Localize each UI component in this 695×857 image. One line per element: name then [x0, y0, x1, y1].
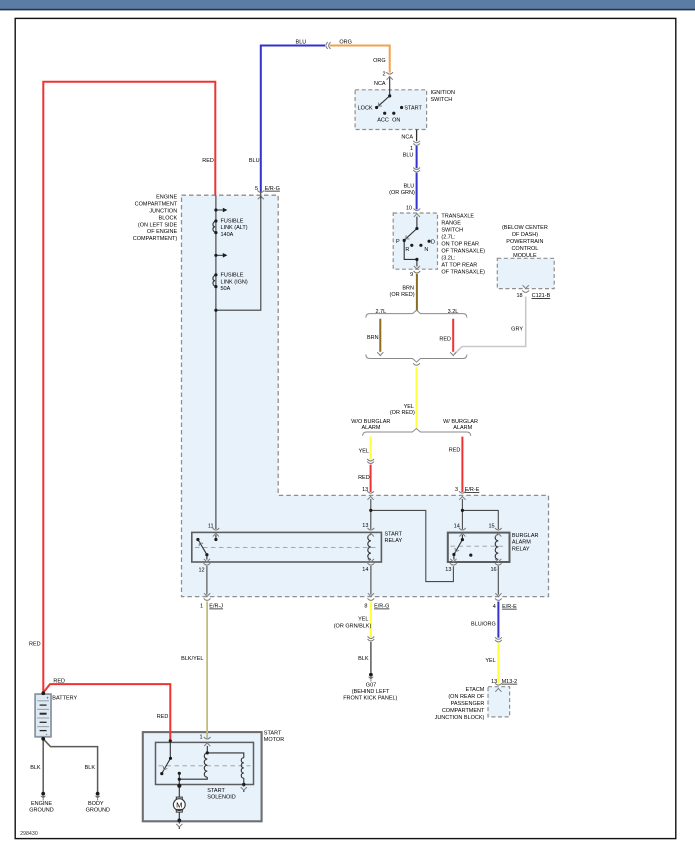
svg-text:1: 1	[410, 146, 413, 152]
svg-text:ACC: ACC	[377, 117, 389, 123]
svg-text:FRONT KICK PANEL): FRONT KICK PANEL)	[343, 695, 397, 701]
svg-text:YEL: YEL	[359, 449, 369, 455]
svg-text:14: 14	[454, 523, 460, 529]
svg-text:14: 14	[362, 567, 368, 573]
svg-text:AT TOP REAR: AT TOP REAR	[441, 263, 477, 269]
svg-text:50A: 50A	[221, 286, 231, 292]
svg-text:MODULE: MODULE	[513, 253, 537, 259]
svg-text:LOCK: LOCK	[358, 106, 373, 112]
svg-text:(OR RED): (OR RED)	[390, 292, 415, 298]
svg-text:ALARM: ALARM	[453, 425, 472, 431]
svg-text:CONTROL: CONTROL	[511, 246, 538, 252]
svg-text:BURGLAR: BURGLAR	[512, 533, 539, 539]
svg-text:5: 5	[255, 186, 258, 192]
svg-text:16: 16	[490, 567, 496, 573]
svg-text:COMPARTMENT): COMPARTMENT)	[133, 236, 178, 242]
svg-text:NCA: NCA	[374, 81, 386, 87]
svg-text:ENGINE: ENGINE	[156, 195, 177, 201]
svg-text:LINK (IGN): LINK (IGN)	[221, 280, 248, 286]
svg-text:FUSIBLE: FUSIBLE	[221, 218, 244, 224]
svg-text:BLK: BLK	[358, 656, 369, 662]
svg-text:YEL: YEL	[485, 658, 495, 664]
svg-text:RANGE: RANGE	[441, 221, 461, 227]
svg-text:(2.7L:: (2.7L:	[441, 235, 456, 241]
svg-text:8: 8	[364, 604, 367, 610]
svg-text:COMPARTMENT: COMPARTMENT	[135, 202, 178, 208]
svg-text:RED: RED	[29, 642, 41, 648]
svg-text:OF ENGINE: OF ENGINE	[147, 229, 178, 235]
svg-text:BLK: BLK	[85, 765, 96, 771]
svg-text:10: 10	[406, 206, 412, 212]
svg-text:SWITCH: SWITCH	[431, 97, 453, 103]
svg-text:BLU/ORG: BLU/ORG	[471, 621, 496, 627]
svg-text:W/O BURGLAR: W/O BURGLAR	[351, 419, 390, 425]
svg-text:RED: RED	[449, 448, 461, 454]
svg-text:BATTERY: BATTERY	[52, 695, 77, 701]
svg-text:YEL: YEL	[404, 404, 414, 410]
svg-text:BLK: BLK	[30, 765, 41, 771]
svg-text:START: START	[385, 531, 403, 537]
svg-text:BLU: BLU	[403, 184, 414, 190]
svg-text:(BEHIND LEFT: (BEHIND LEFT	[352, 689, 390, 695]
svg-text:RED: RED	[157, 714, 169, 720]
svg-text:11: 11	[208, 524, 214, 530]
svg-text:298430: 298430	[20, 831, 38, 837]
svg-text:3.2L: 3.2L	[448, 309, 459, 315]
svg-text:GROUND: GROUND	[86, 808, 110, 814]
svg-text:N: N	[424, 247, 428, 253]
svg-text:2.7L: 2.7L	[375, 309, 386, 315]
svg-text:MOTOR: MOTOR	[264, 737, 284, 743]
svg-text:SOLENOID: SOLENOID	[207, 794, 235, 800]
svg-text:YEL: YEL	[358, 617, 368, 623]
svg-text:LINK (ALT): LINK (ALT)	[221, 225, 248, 231]
svg-text:+: +	[46, 695, 49, 700]
svg-text:ON: ON	[392, 117, 400, 123]
svg-text:SWITCH: SWITCH	[441, 228, 463, 234]
svg-text:START: START	[264, 731, 282, 737]
svg-text:4: 4	[493, 604, 496, 610]
svg-text:POWERTRAIN: POWERTRAIN	[506, 239, 543, 245]
svg-text:START: START	[404, 106, 422, 112]
svg-text:IGNITION: IGNITION	[431, 90, 455, 96]
svg-text:W/ BURGLAR: W/ BURGLAR	[443, 419, 478, 425]
svg-text:(OR RED): (OR RED)	[390, 410, 415, 416]
svg-text:RELAY: RELAY	[385, 538, 403, 544]
svg-text:1: 1	[199, 734, 202, 740]
svg-text:(ON LEFT SIDE: (ON LEFT SIDE	[138, 222, 178, 228]
svg-text:2: 2	[383, 72, 386, 78]
svg-text:-: -	[46, 732, 48, 738]
svg-text:RELAY: RELAY	[512, 546, 530, 552]
svg-text:9: 9	[410, 272, 413, 278]
svg-text:1: 1	[200, 604, 203, 610]
svg-text:ETACM: ETACM	[466, 687, 485, 693]
svg-text:13: 13	[362, 487, 368, 493]
svg-text:3: 3	[455, 487, 458, 493]
svg-text:ALARM: ALARM	[512, 540, 531, 546]
svg-text:COMPARTMENT: COMPARTMENT	[442, 708, 485, 714]
svg-text:BRN: BRN	[402, 285, 414, 291]
svg-text:JUNCTION BLOCK): JUNCTION BLOCK)	[435, 715, 485, 721]
svg-text:OF TRANSAXLE): OF TRANSAXLE)	[441, 270, 485, 276]
svg-text:RED: RED	[439, 337, 451, 343]
svg-text:15: 15	[488, 523, 494, 529]
svg-text:140A: 140A	[221, 232, 234, 238]
svg-text:JUNCTION: JUNCTION	[149, 209, 177, 215]
svg-text:BODY: BODY	[88, 801, 104, 807]
svg-text:G07: G07	[366, 682, 376, 688]
svg-text:RED: RED	[53, 679, 65, 685]
svg-text:OF DASH): OF DASH)	[512, 232, 538, 238]
svg-text:GRY: GRY	[511, 327, 523, 333]
svg-text:18: 18	[516, 293, 522, 299]
svg-text:BLOCK: BLOCK	[159, 215, 178, 221]
svg-text:ENGINE: ENGINE	[31, 801, 52, 807]
svg-text:ORG: ORG	[373, 58, 386, 64]
svg-text:PASSENGER: PASSENGER	[451, 701, 485, 707]
svg-text:BRN: BRN	[367, 335, 379, 341]
svg-text:OF TRANSAXLE): OF TRANSAXLE)	[441, 249, 485, 255]
svg-text:R: R	[405, 247, 409, 253]
svg-text:D: D	[431, 239, 435, 245]
svg-text:P: P	[396, 239, 400, 245]
svg-text:(BELOW CENTER: (BELOW CENTER	[502, 225, 548, 231]
svg-text:TRANSAXLE: TRANSAXLE	[441, 214, 474, 220]
svg-text:BLU: BLU	[403, 153, 414, 159]
svg-text:12: 12	[198, 567, 204, 573]
svg-text:BLU: BLU	[249, 158, 260, 164]
svg-text:ORG: ORG	[339, 39, 352, 45]
svg-text:(OR GRN): (OR GRN)	[389, 190, 415, 196]
svg-text:RED: RED	[202, 158, 214, 164]
svg-text:13: 13	[445, 567, 451, 573]
svg-text:BLU: BLU	[296, 39, 307, 45]
svg-text:13: 13	[362, 523, 368, 529]
svg-text:BLK/YEL: BLK/YEL	[181, 656, 203, 662]
svg-text:RED: RED	[358, 475, 370, 481]
svg-text:(OR GRN/BLK): (OR GRN/BLK)	[334, 624, 372, 630]
svg-text:FUSIBLE: FUSIBLE	[221, 273, 244, 279]
svg-text:ON TOP REAR: ON TOP REAR	[441, 242, 479, 248]
svg-text:13: 13	[491, 679, 497, 685]
svg-text:(ON REAR OF: (ON REAR OF	[448, 694, 485, 700]
svg-text:GROUND: GROUND	[29, 808, 53, 814]
svg-text:M: M	[176, 800, 182, 809]
svg-text:NCA: NCA	[401, 134, 413, 140]
svg-text:(3.2L:: (3.2L:	[441, 256, 456, 262]
svg-text:START: START	[207, 788, 225, 794]
svg-text:ALARM: ALARM	[362, 425, 381, 431]
